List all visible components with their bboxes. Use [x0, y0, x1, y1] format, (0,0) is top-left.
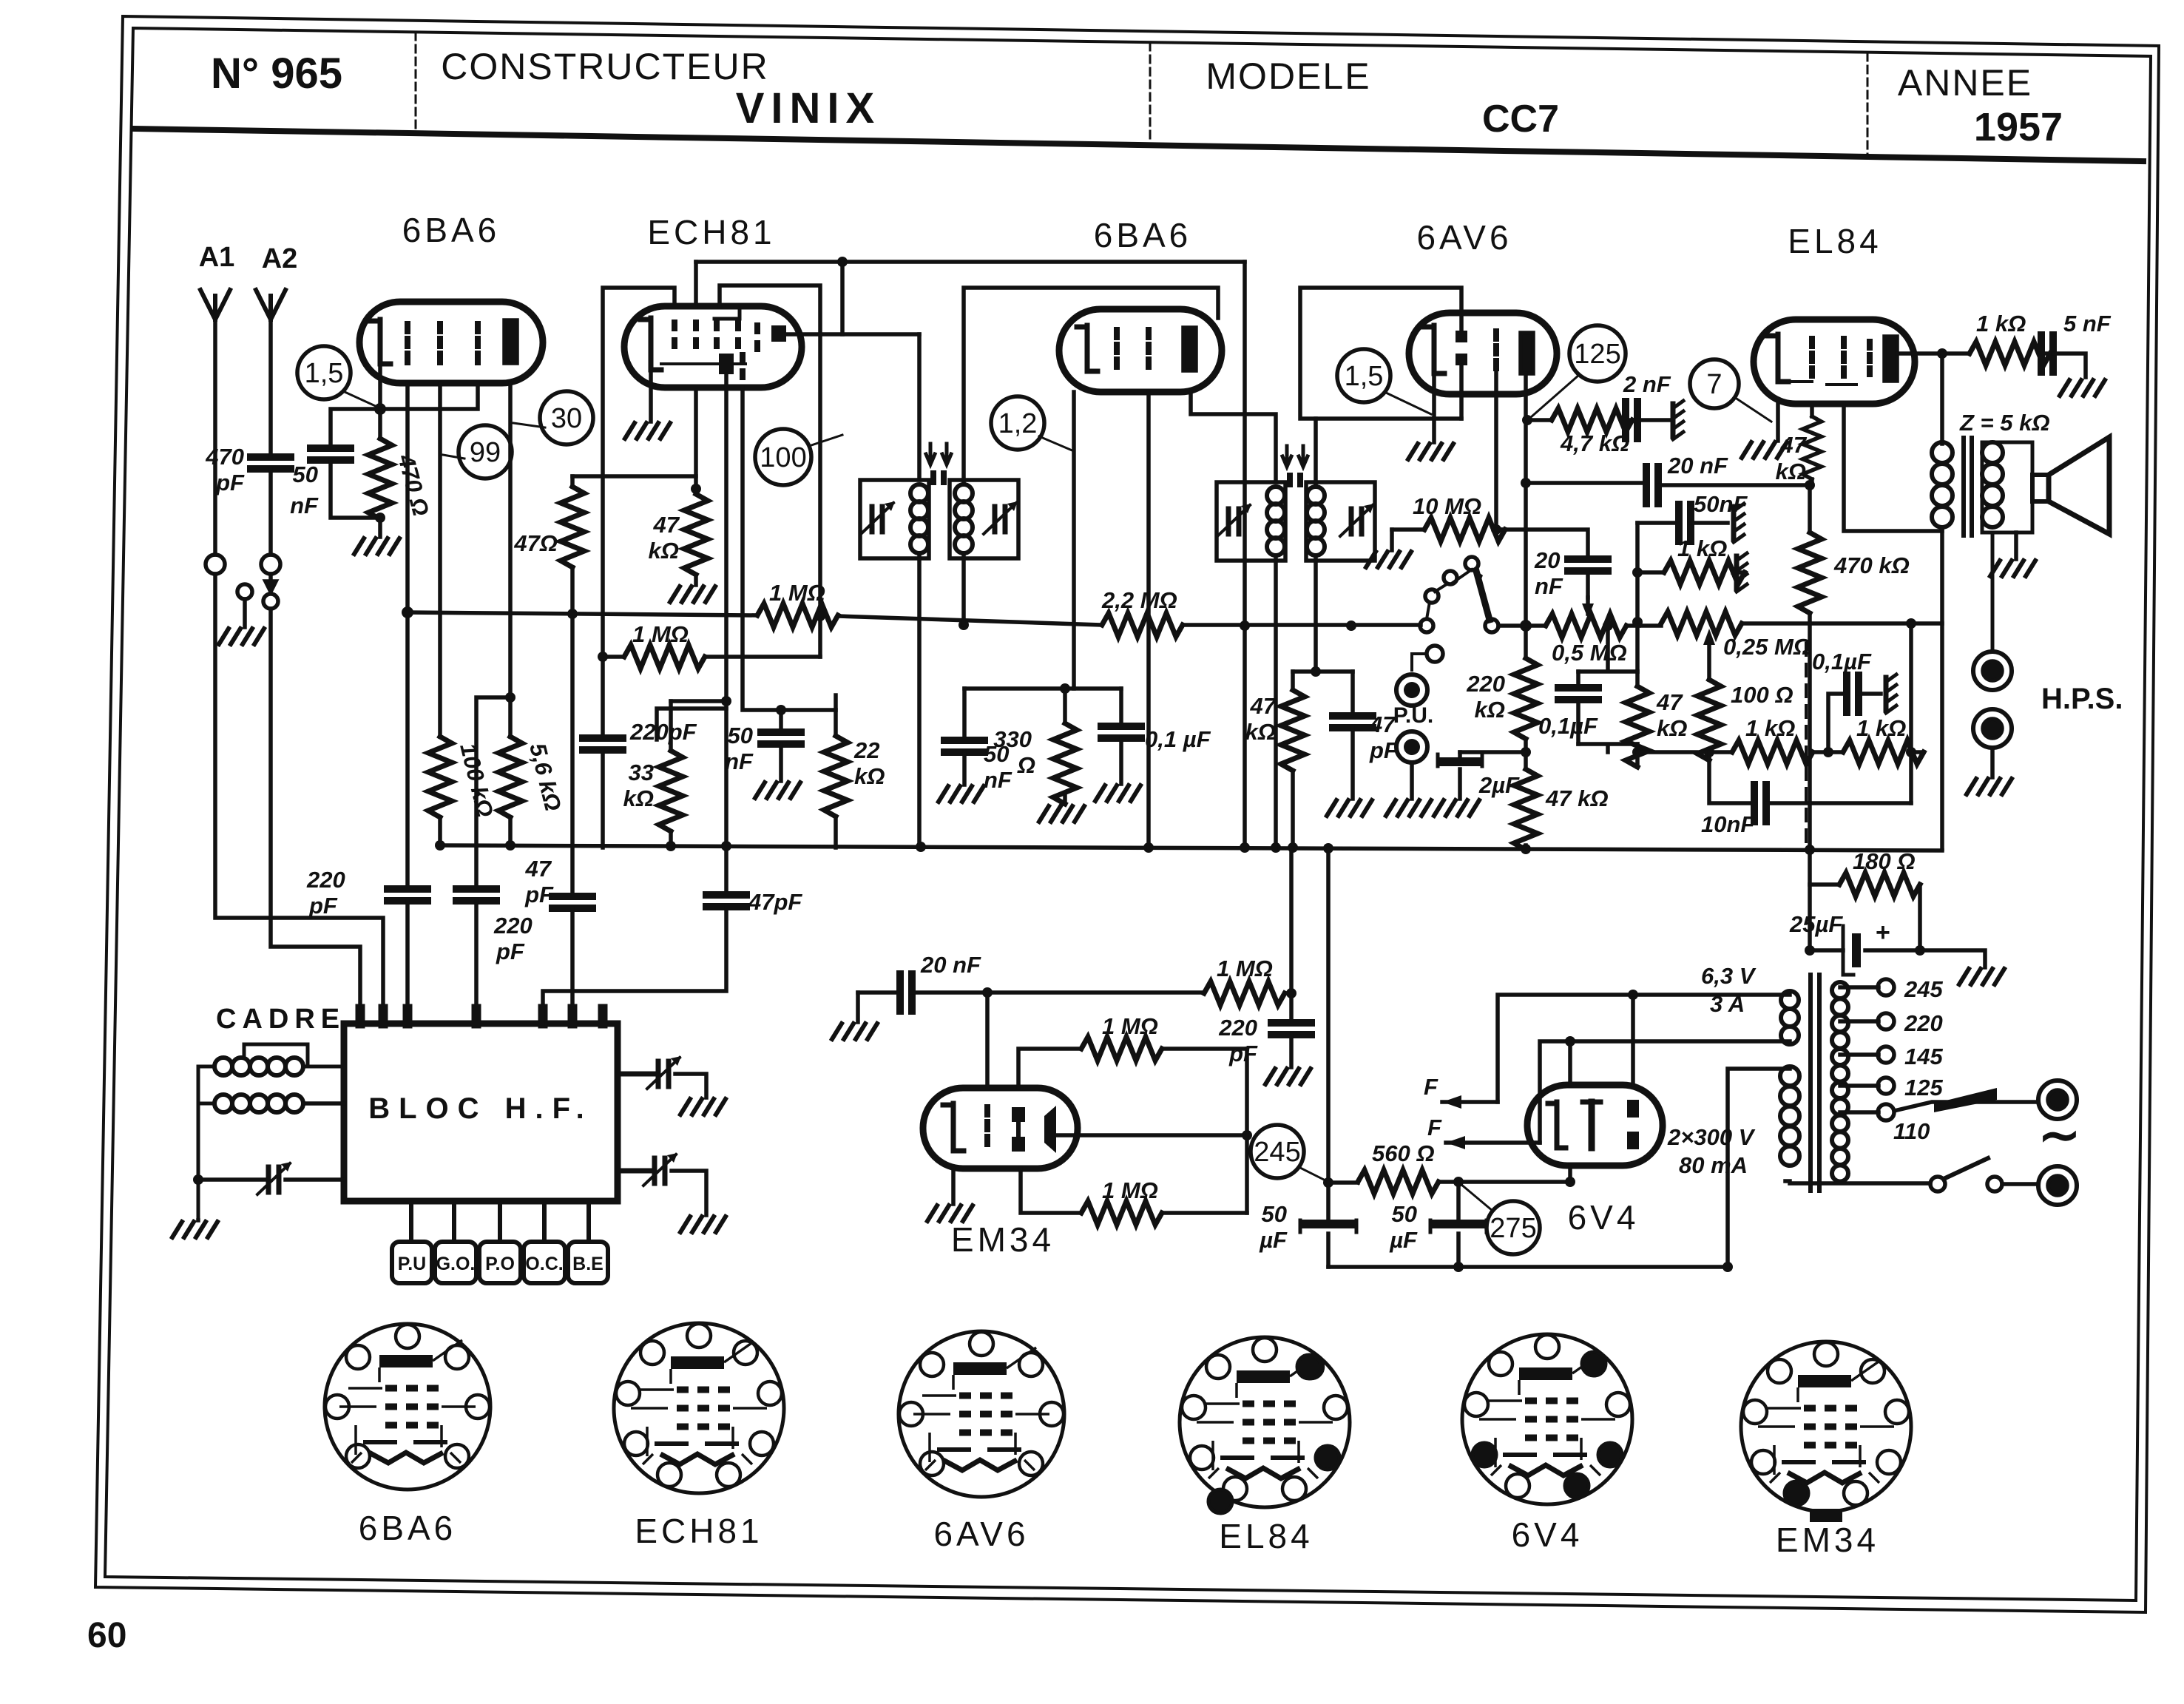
wire EM34 target to right [1056, 1133, 1247, 1137]
svg-text:CONSTRUCTEUR: CONSTRUCTEUR [441, 46, 768, 87]
resistor 1 MΩ (EM34 anode) [1081, 1037, 1162, 1061]
resistor 22 kΩ [834, 710, 838, 736]
header separator 1 [415, 33, 417, 133]
svg-text:47: 47 [653, 512, 680, 538]
IFT1 primary coil [910, 484, 928, 502]
wire secondary to ground [2014, 532, 2018, 559]
wire cathode row 2 [964, 686, 1121, 691]
svg-text:P.U: P.U [398, 1254, 426, 1274]
resistor 47 Ω [570, 476, 575, 487]
capacitor 25 µF electrolytic [1810, 948, 1843, 953]
mains switch [1930, 1177, 1945, 1191]
capacitor 50 µF (1) [1326, 1183, 1331, 1224]
svg-text:1 kΩ: 1 kΩ [1856, 715, 1906, 741]
pot arrow up [1707, 643, 1711, 680]
wire A2 to BLOC [271, 609, 360, 1018]
svg-text:47: 47 [1369, 711, 1396, 737]
BLOC top pin stubs [360, 1009, 603, 1024]
jack AC 1 [2038, 1081, 2077, 1119]
wire screen down to bus [1146, 392, 1151, 848]
svg-text:220: 220 [493, 913, 533, 939]
wire 2uF to 220k node [1460, 750, 1526, 754]
wire screen row to cathode [572, 474, 696, 479]
wire B+ down to 245 node [1326, 848, 1331, 1183]
resistor 470 kΩ [1808, 485, 1812, 532]
svg-text:H.P.S.: H.P.S. [2041, 683, 2123, 715]
svg-text:1 MΩ: 1 MΩ [769, 580, 825, 606]
capacitor 220 pF (2) [456, 889, 496, 901]
svg-text:nF: nF [725, 748, 754, 774]
wire 6V4 pins up [1570, 995, 1633, 1085]
circled 1,5 [297, 346, 351, 399]
wire ECH81 pin up to top wire [694, 262, 698, 306]
svg-text:100 Ω: 100 Ω [1731, 682, 1793, 708]
svg-text:1,5: 1,5 [305, 358, 344, 389]
svg-text:1957: 1957 [1974, 105, 2063, 149]
cadre coil 2 [214, 1095, 232, 1112]
IFT1 secondary coil [955, 484, 973, 502]
svg-text:nF: nF [984, 767, 1012, 793]
tube EM34 cathode [953, 1103, 964, 1151]
tube 6BA6 (2) grids [1117, 330, 1149, 367]
svg-text:47: 47 [1656, 689, 1683, 715]
potentiometer 0,5 MΩ [1498, 623, 1546, 628]
resistor 1 kΩ (fb1) [1732, 740, 1813, 764]
svg-text:pF: pF [1228, 1041, 1258, 1066]
wire diode pin [1459, 365, 1464, 419]
resistor 5,6 kΩ [498, 737, 522, 817]
svg-text:1 MΩ: 1 MΩ [1102, 1177, 1158, 1203]
fuse [1894, 1102, 2038, 1111]
svg-text:B.E: B.E [572, 1254, 604, 1274]
ground cadre [196, 1218, 200, 1223]
socket 6BA6 [325, 1324, 490, 1490]
svg-text:275: 275 [1490, 1213, 1536, 1244]
wire detector row [1293, 669, 1353, 674]
svg-text:+: + [1876, 919, 1890, 947]
switch arm [1476, 571, 1490, 620]
tube ECH81 triode grid line [661, 362, 746, 365]
wire cadre left [198, 1066, 214, 1220]
IFT1 secondary bottom to AVC [961, 553, 966, 625]
terminal A1 [206, 555, 225, 574]
svg-text:330: 330 [993, 726, 1032, 752]
wire A1 down [213, 319, 217, 555]
circled 245 [1251, 1125, 1304, 1178]
svg-text:50: 50 [293, 461, 318, 487]
svg-text:220: 220 [1904, 1010, 1943, 1036]
resistor 1 kΩ (fb2) [1843, 740, 1924, 764]
svg-text:125: 125 [1904, 1075, 1943, 1100]
svg-text:2,2 MΩ: 2,2 MΩ [1101, 587, 1177, 613]
tube 6BA6 (2) anode [1183, 328, 1196, 371]
tube ECH81 cathode [651, 318, 661, 370]
svg-text:pF: pF [215, 470, 245, 496]
IF transformer 1 left box [860, 480, 929, 558]
wire grid2 down [438, 383, 442, 737]
svg-text:6,3 V: 6,3 V [1701, 963, 1757, 989]
tube EM34 deflector bars [1012, 1107, 1025, 1122]
AVC bus middle [838, 616, 1102, 625]
capacitor 220 pF [388, 889, 427, 901]
svg-text:220: 220 [306, 867, 345, 893]
svg-text:pF: pF [496, 939, 525, 964]
tube 6V4 anode squares [1627, 1100, 1639, 1118]
svg-text:kΩ: kΩ [1245, 719, 1276, 745]
svg-text:kΩ: kΩ [1776, 459, 1806, 484]
tube 6BA6 (1) anode [504, 320, 517, 363]
wire anode to IFT1 [842, 262, 919, 480]
IFT2 primary bottom to bus [1274, 555, 1278, 848]
svg-text:25µF: 25µF [1789, 911, 1843, 937]
tube 6AV6 diode plates [1456, 331, 1467, 342]
resistor 1 MΩ (EM34 lower) [1021, 1169, 1081, 1213]
svg-text:2 nF: 2 nF [1623, 371, 1671, 397]
svg-text:1 kΩ: 1 kΩ [1677, 535, 1727, 561]
resistor 1 MΩ (EM34 grid) [1204, 981, 1285, 1005]
power transformer core [1811, 975, 1819, 1191]
tube 6AV6 cathode [1434, 325, 1444, 373]
tube ECH81 electrode dots top row [675, 322, 757, 349]
plug contact arrow [266, 574, 276, 592]
capacitor 10 nF [1709, 752, 1754, 803]
tap 125 [1840, 1083, 1879, 1088]
capacitor 0,1 µF [1119, 689, 1123, 726]
svg-text:47 kΩ: 47 kΩ [1545, 785, 1609, 811]
svg-text:P.O: P.O [485, 1254, 515, 1274]
speaker frame box [1982, 442, 2032, 532]
svg-text:VINIX: VINIX [736, 84, 882, 132]
svg-text:6BA6: 6BA6 [359, 1509, 457, 1547]
tube EM34 target anode [1044, 1106, 1056, 1153]
tube 6AV6 envelope [1409, 313, 1557, 394]
svg-text:kΩ: kΩ [854, 763, 885, 789]
top supply wire [696, 260, 1245, 264]
jack P.U. bottom [1396, 731, 1427, 763]
capacitor 2 µF electrolytic [1458, 752, 1462, 762]
trimmer (antenna) [198, 1177, 268, 1182]
resistor 47 kΩ (ECH81 cathode) [694, 388, 698, 489]
tube 6BA6 (1) grid 2 dashes [437, 324, 443, 362]
header separator 2 [1149, 43, 1152, 143]
svg-text:47Ω: 47Ω [513, 530, 558, 556]
resistor 1 MΩ (osc grid) [603, 655, 624, 659]
svg-text:MODELE: MODELE [1206, 55, 1370, 97]
svg-text:EL84: EL84 [1219, 1517, 1313, 1555]
resistor 47 kΩ (det) [1524, 752, 1528, 769]
svg-text:µF: µF [1259, 1227, 1288, 1253]
svg-text:2×300 V: 2×300 V [1667, 1124, 1756, 1150]
capacitor 20 nF (EM34) [858, 990, 900, 995]
svg-text:nF: nF [1535, 573, 1563, 599]
tube 6AV6 grid dashes [1493, 331, 1499, 368]
tube EL84 beam plates [1790, 382, 1856, 385]
circled 125 [1569, 325, 1626, 382]
power transformer secondary winding [1832, 982, 1848, 998]
wire grid1 down (AVC) [405, 383, 410, 889]
detector loads: resistor 47 kΩ [1291, 672, 1295, 690]
svg-text:F: F [1424, 1074, 1438, 1100]
wire 6AV6 cathode to ground [1432, 373, 1436, 442]
wire cathode down [1072, 392, 1076, 689]
svg-text:O.C.: O.C. [525, 1254, 563, 1274]
wire [331, 460, 380, 518]
tube 6BA6 (1) grid 1 dashes [405, 324, 410, 362]
wire A2 down [268, 319, 273, 555]
svg-text:7: 7 [1706, 369, 1722, 400]
svg-text:50: 50 [1262, 1201, 1287, 1227]
cadre coil 1 [214, 1058, 232, 1075]
jack P.U. top [1396, 674, 1427, 706]
wire 33k top to osc anode line [671, 699, 726, 703]
capacitor 50 µF (2) [1456, 1182, 1461, 1224]
svg-text:6BA6: 6BA6 [1094, 216, 1192, 254]
capacitor 0,1 µF (fb) [1828, 694, 1847, 752]
svg-text:99: 99 [470, 437, 501, 468]
resistor 330 Ω [1063, 689, 1067, 723]
tube 6BA6 (2) envelope [1059, 309, 1222, 392]
IFT2 coupling arrows [1282, 446, 1308, 467]
terminal box O.C. [524, 1242, 565, 1283]
svg-text:A1: A1 [199, 242, 235, 273]
AVC bus right [1183, 623, 1421, 627]
volume switch contacts [1465, 557, 1478, 570]
resistor 1 kΩ (anode stop) [1970, 342, 2050, 365]
tube EL84 anode [1884, 337, 1897, 381]
vertical EM34 right [1245, 1049, 1249, 1213]
wire EM34 plate load [1018, 1049, 1081, 1088]
BLOC right pin 1 to trimmer [618, 1072, 656, 1077]
vertical fb right [1909, 623, 1913, 803]
svg-text:0,1 µF: 0,1 µF [1145, 726, 1211, 752]
svg-text:G.O.: G.O. [436, 1254, 476, 1274]
svg-text:1 kΩ: 1 kΩ [1976, 311, 2026, 337]
svg-text:CC7: CC7 [1482, 98, 1559, 141]
jack H.P.S. bottom [1973, 709, 2012, 748]
tube ECH81 envelope [624, 306, 802, 388]
svg-text:0,1µF: 0,1µF [1538, 713, 1598, 739]
power transformer HT winding [1780, 1066, 1799, 1086]
svg-text:1 MΩ: 1 MΩ [1102, 1013, 1158, 1039]
capacitor 50 nF [311, 448, 351, 460]
resistor 2,2 MΩ [1102, 613, 1183, 637]
output transformer core [1964, 438, 1972, 535]
svg-text:50nF: 50nF [1694, 491, 1748, 517]
socket EM34 [1741, 1342, 1911, 1512]
BLOC bottom stubs [411, 1201, 589, 1242]
wire EL84 anode right [1897, 351, 1970, 356]
bottom return wire [1328, 1265, 1728, 1269]
resistor 33 kΩ [669, 701, 673, 751]
6AV6 grid loop [1300, 288, 1461, 419]
wire 20 nF to EL84 grid [1526, 481, 1646, 485]
resistor 47 kΩ (EL84 grid) [1810, 404, 1814, 416]
wire EL84 screen [1844, 404, 1942, 531]
svg-text:20 nF: 20 nF [1667, 453, 1728, 479]
svg-text:560 Ω: 560 Ω [1372, 1140, 1435, 1166]
HT winding left lead [1728, 1069, 1790, 1267]
svg-text:EM34: EM34 [951, 1220, 1055, 1259]
terminal box B.E [568, 1242, 608, 1283]
jack AC 2 [2038, 1166, 2077, 1205]
capacitor 50 nF (ECH81 g2) [779, 710, 783, 732]
svg-text:kΩ: kΩ [623, 785, 654, 811]
header separator 3 [1867, 53, 1869, 157]
svg-text:47: 47 [525, 856, 552, 882]
svg-text:110: 110 [1893, 1118, 1930, 1144]
wire A1 to BLOC [215, 574, 383, 1018]
svg-text:pF: pF [308, 893, 338, 919]
circled 7 [1690, 359, 1739, 408]
tube EM34 envelope [923, 1088, 1078, 1169]
svg-text:1,5: 1,5 [1345, 361, 1384, 392]
svg-text:BLOC H.F.: BLOC H.F. [368, 1092, 593, 1125]
wire to volume cap [1496, 530, 1588, 559]
svg-text:30: 30 [551, 403, 582, 434]
svg-text:0,1µF: 0,1µF [1812, 649, 1872, 674]
capacitor 220 pF (EM34) [1289, 993, 1294, 1023]
tube EL84 grids [1812, 339, 1870, 376]
capacitor 2 nF [1630, 418, 1632, 422]
power transformer heater winding [1781, 991, 1799, 1009]
circled 100 [755, 429, 811, 485]
resistor 220 kΩ [1514, 658, 1538, 739]
IFT1 primary bottom to bus [917, 553, 922, 847]
IF transformer 2 left box [1217, 482, 1285, 561]
IFT2 right box [1306, 482, 1375, 561]
wire anode to IFT2 [1191, 392, 1276, 482]
terminal box G.O. [435, 1242, 476, 1283]
IFT1 coupling arrows [926, 444, 951, 464]
svg-text:6V4: 6V4 [1512, 1515, 1583, 1554]
circled 275 [1487, 1201, 1540, 1254]
tube EL84 envelope [1754, 319, 1915, 404]
wire anode jog to 220pF [476, 697, 510, 889]
tube 6V4 filament [1557, 1102, 1566, 1148]
wire 33k top to osc wire [657, 709, 726, 740]
svg-text:ANNEE: ANNEE [1898, 62, 2032, 104]
wire coil1 to BLOC [244, 1044, 344, 1066]
svg-text:470: 470 [205, 444, 244, 470]
F arrow 2 [1446, 1140, 1540, 1145]
tube EL84 cathode [1778, 334, 1788, 382]
wire EL84 cathode ground [1776, 404, 1780, 441]
socket 6AV6 [899, 1331, 1064, 1497]
resistor 4,7 kΩ [1527, 418, 1552, 422]
svg-text:kΩ: kΩ [1475, 697, 1505, 723]
capacitor 50 nF (cath 2) [962, 689, 967, 740]
tap 220 [1840, 1019, 1879, 1024]
tube ECH81 heptode anode square [771, 325, 786, 342]
resistor 560 Ω [1328, 1180, 1358, 1185]
wire HPS ground [1990, 748, 1995, 777]
svg-text:6AV6: 6AV6 [933, 1515, 1029, 1553]
ground 10MΩ [1390, 530, 1394, 550]
BLOC H.F. box [344, 1024, 618, 1201]
wire 220pF node up to bus [1289, 848, 1294, 993]
resistor 1 kΩ (tone) [1637, 570, 1664, 575]
IFT2 secondary top to 6AV6 loop [1314, 419, 1318, 487]
svg-text:125: 125 [1574, 339, 1620, 370]
wire volume line to 0,25M [1639, 623, 1661, 628]
svg-text:145: 145 [1904, 1044, 1943, 1069]
IFT2 secondary coil [1307, 487, 1325, 504]
svg-text:kΩ: kΩ [1657, 715, 1687, 741]
plug contact [237, 584, 252, 599]
wire plug to ground [243, 599, 247, 627]
svg-text:180 Ω: 180 Ω [1853, 848, 1916, 874]
tube 6BA6 (1) cathode [380, 319, 391, 364]
svg-text:nF: nF [290, 493, 319, 518]
ground (ECH81 triode cathode) [649, 370, 653, 422]
svg-text:kΩ: kΩ [649, 538, 679, 564]
F arrow 1 [1442, 1100, 1498, 1104]
IFT1 secondary top to grid [964, 288, 1218, 484]
terminal A2 [261, 555, 280, 574]
svg-text:33: 33 [629, 760, 654, 785]
IFT2 secondary bottom [1314, 555, 1318, 672]
svg-text:Z = 5 kΩ: Z = 5 kΩ [1959, 410, 2050, 436]
tube ECH81 lower dots [740, 355, 746, 377]
capacitor 50 nF (tone) [1637, 521, 1676, 525]
wire anode down [508, 383, 513, 737]
header underline [133, 129, 2143, 161]
resistor 100 kΩ [428, 737, 452, 817]
svg-text:pF: pF [524, 882, 554, 907]
antenna A2 symbol [256, 290, 285, 319]
wire 6AV6 grid down [1494, 368, 1498, 530]
svg-text:EL84: EL84 [1788, 222, 1882, 260]
resistor 180 Ω [1810, 882, 1839, 887]
resistor 10 MΩ [1392, 527, 1424, 532]
svg-text:0,25 MΩ: 0,25 MΩ [1723, 634, 1811, 660]
antenna A1 symbol [200, 290, 230, 319]
ground [219, 629, 264, 644]
capacitor 5 nF [2041, 351, 2050, 356]
wire [474, 901, 479, 1024]
hatched ground [1673, 401, 1683, 439]
BLOC right pin 2 to trimmer [618, 1169, 652, 1174]
svg-text:47pF: 47pF [748, 889, 802, 915]
wire EM34 grid pin [985, 993, 990, 1088]
circled 1,5 (2) [1337, 349, 1390, 402]
tube 6BA6 (2) cathode [1087, 325, 1098, 371]
svg-text:5 nF: 5 nF [2063, 311, 2112, 337]
capacitor 220 pF (osc) [583, 738, 623, 750]
wire triode anode down [724, 374, 728, 895]
svg-text:1,2: 1,2 [998, 408, 1038, 439]
AVC bus left [408, 612, 757, 615]
svg-text:Ω: Ω [1017, 752, 1035, 778]
wire 25uF to ground [1920, 950, 1985, 967]
socket 6V4 [1462, 1334, 1632, 1504]
wire AVC feed down right [1243, 262, 1247, 848]
svg-text:µF: µF [1389, 1227, 1418, 1253]
tube EM34 grid dashes [984, 1107, 990, 1144]
tube ECH81 lower anode square [719, 354, 734, 374]
socket ECH81 [614, 1323, 784, 1493]
wires coupling pair [1578, 626, 1637, 752]
ECH81 grid loop (box A) [603, 288, 675, 738]
svg-text:10 MΩ: 10 MΩ [1413, 493, 1481, 519]
B+ bus [439, 845, 1942, 851]
svg-text:80 mA: 80 mA [1679, 1152, 1748, 1178]
svg-text:60: 60 [87, 1616, 126, 1655]
tube 6V4 envelope [1527, 1085, 1663, 1166]
svg-text:3 A: 3 A [1710, 991, 1745, 1017]
wire heptode anode right [786, 332, 919, 337]
heater wire 2 [1540, 1041, 1790, 1143]
